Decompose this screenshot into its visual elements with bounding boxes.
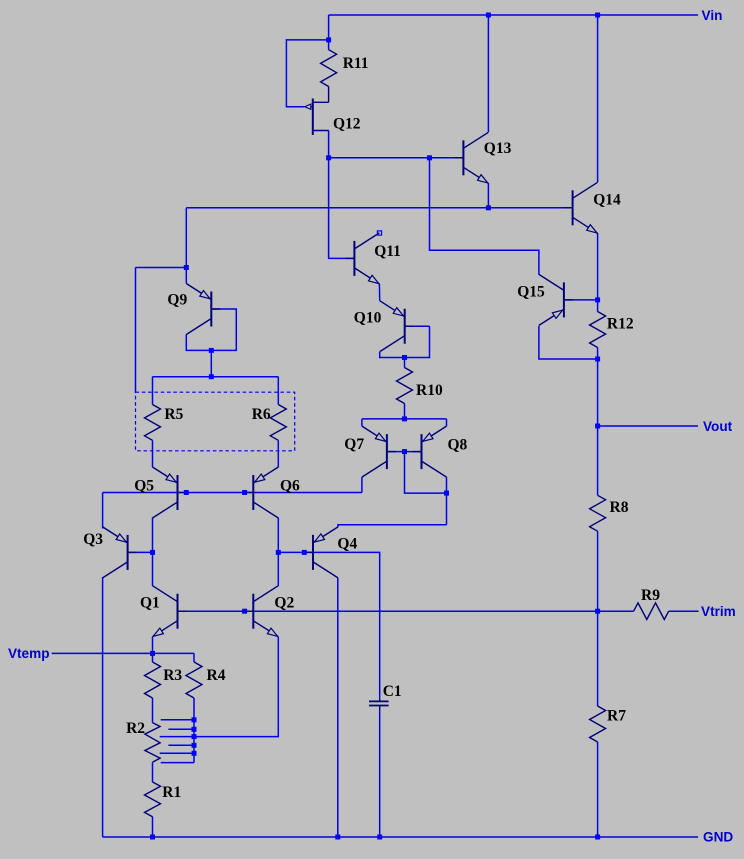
junction — [192, 743, 197, 748]
wire — [152, 762, 154, 782]
svg-text:Vtemp: Vtemp — [8, 646, 50, 661]
junction — [377, 835, 382, 840]
wire base bus Q5 Q6 — [103, 492, 362, 494]
junction — [595, 609, 600, 614]
wire Vin rail — [329, 14, 698, 16]
transistor Q9 — [210, 292, 212, 327]
junction — [192, 751, 197, 756]
resistor R7 — [590, 706, 606, 742]
wire — [102, 493, 104, 529]
svg-text:R2: R2 — [126, 720, 145, 737]
transistor Q12 JFET — [312, 99, 314, 135]
wire — [135, 268, 137, 393]
wire — [193, 653, 195, 662]
svg-text:R5: R5 — [164, 406, 183, 423]
wire — [277, 377, 279, 405]
junction — [192, 727, 197, 732]
wire — [286, 40, 328, 107]
svg-text:R4: R4 — [207, 667, 226, 684]
transistor Q13 — [462, 140, 464, 175]
svg-text:Vout: Vout — [703, 419, 733, 434]
svg-text:Q3: Q3 — [83, 531, 103, 548]
wire — [361, 477, 363, 492]
svg-text:Q2: Q2 — [274, 595, 294, 612]
wire Vout lead — [598, 425, 698, 427]
wire — [597, 359, 599, 495]
svg-text:Vtrim: Vtrim — [701, 604, 736, 619]
svg-text:Vin: Vin — [702, 8, 723, 23]
svg-text:R6: R6 — [252, 406, 271, 423]
wire — [430, 158, 539, 275]
wire — [487, 15, 489, 132]
wire tap — [161, 719, 194, 721]
wire — [277, 518, 279, 586]
junction — [427, 155, 432, 160]
wire — [152, 440, 154, 467]
junction — [595, 424, 600, 429]
resistor R1 — [145, 782, 161, 817]
wire — [404, 358, 406, 368]
wire — [337, 578, 339, 837]
wire — [379, 712, 381, 837]
junction — [276, 550, 281, 555]
junction — [242, 490, 247, 495]
junction — [486, 13, 491, 18]
svg-text:Q11: Q11 — [374, 243, 401, 260]
wire — [446, 419, 448, 426]
wire — [329, 157, 464, 159]
wire — [152, 518, 154, 586]
resistor R5 — [145, 405, 161, 441]
svg-text:C1: C1 — [383, 683, 402, 700]
wire — [378, 284, 380, 301]
wire Q10 diode loop — [380, 326, 430, 357]
wire — [597, 233, 599, 300]
svg-text:R12: R12 — [607, 316, 634, 333]
transistor Q11 — [353, 241, 355, 276]
wire Q7 base lead — [387, 451, 405, 453]
junction — [402, 355, 407, 360]
wire tap — [160, 736, 194, 738]
wire — [597, 742, 599, 837]
wire — [152, 653, 154, 662]
junction — [209, 348, 214, 353]
wire — [278, 552, 379, 698]
wire — [153, 376, 279, 378]
transistor Q10 — [404, 309, 406, 344]
transistor Q8 — [421, 434, 423, 469]
junction — [150, 835, 155, 840]
svg-text:Q1: Q1 — [140, 595, 160, 612]
svg-text:Q4: Q4 — [337, 536, 357, 553]
resistor R11 — [321, 50, 337, 87]
wire — [597, 15, 599, 182]
wire — [128, 551, 153, 553]
junction — [335, 835, 340, 840]
wire GND rail — [103, 836, 698, 838]
junction — [444, 491, 449, 496]
wire Vtrim bus — [178, 610, 634, 612]
wire — [328, 15, 330, 40]
junction — [150, 550, 155, 555]
resistor R9 — [634, 603, 669, 620]
wire tap — [168, 744, 194, 746]
wire Q7 Q8 base tie — [405, 452, 447, 494]
wire Vtemp lead — [52, 652, 194, 654]
wire Q9 diode loop — [186, 309, 236, 350]
wire — [194, 637, 278, 737]
junction — [184, 265, 189, 270]
wire tap — [160, 752, 194, 754]
wire — [539, 326, 598, 359]
resistor R3 — [145, 662, 161, 698]
wire Q7 Q8 emitter rail — [362, 418, 447, 420]
wire — [328, 40, 330, 50]
wire — [152, 817, 154, 837]
pin marker Q11 collector — [377, 231, 381, 235]
junction — [486, 205, 491, 210]
transistor Q6 — [252, 475, 254, 510]
junction — [595, 357, 600, 362]
transistor Q14 — [572, 190, 574, 225]
svg-text:Q14: Q14 — [593, 192, 621, 209]
transistor Q3 — [127, 535, 129, 570]
junction — [595, 835, 600, 840]
transistor Q2 — [252, 594, 254, 629]
wire — [277, 440, 279, 467]
wire — [328, 131, 330, 158]
matched pair box R5 R6 — [136, 392, 295, 451]
wire — [446, 477, 448, 525]
svg-text:R11: R11 — [343, 55, 369, 72]
wire — [405, 325, 430, 327]
junction — [192, 717, 197, 722]
svg-text:GND: GND — [703, 830, 733, 845]
wire — [152, 377, 154, 405]
resistor R6 — [270, 405, 286, 441]
svg-text:Q8: Q8 — [448, 437, 468, 454]
svg-text:R8: R8 — [610, 499, 629, 516]
wire — [597, 348, 599, 360]
svg-text:Q13: Q13 — [484, 140, 512, 157]
junction — [302, 550, 307, 555]
capacitor C1 — [379, 698, 381, 701]
svg-text:R1: R1 — [162, 784, 181, 801]
transistor Q15 — [563, 282, 565, 317]
wire — [102, 577, 104, 837]
svg-text:Q12: Q12 — [333, 116, 361, 133]
junction — [209, 374, 214, 379]
svg-text:Q9: Q9 — [167, 292, 187, 309]
wire — [597, 300, 599, 312]
resistor R2 — [145, 723, 160, 763]
wire — [404, 404, 406, 419]
junction — [192, 734, 197, 739]
wire — [487, 183, 489, 208]
resistor R10 — [397, 368, 413, 404]
junction — [326, 155, 331, 160]
junction — [150, 651, 155, 656]
junction — [402, 449, 407, 454]
wire — [152, 637, 154, 654]
svg-text:Q10: Q10 — [354, 310, 382, 327]
transistor Q4 — [312, 535, 314, 570]
junction — [595, 13, 600, 18]
junction — [184, 490, 189, 495]
svg-text:Q7: Q7 — [344, 436, 364, 453]
svg-text:R10: R10 — [416, 382, 443, 399]
wire — [210, 350, 212, 376]
svg-text:R9: R9 — [641, 587, 660, 604]
wire — [597, 531, 599, 611]
wire — [328, 87, 330, 103]
svg-text:Q5: Q5 — [134, 478, 154, 495]
resistor R12 — [590, 312, 606, 348]
junction — [242, 609, 247, 614]
junction — [326, 37, 331, 42]
svg-text:R3: R3 — [163, 667, 182, 684]
transistor Q5 — [177, 475, 179, 510]
wire — [338, 525, 447, 527]
svg-text:Q6: Q6 — [280, 478, 300, 495]
wire — [669, 610, 699, 612]
wire — [564, 299, 598, 301]
junction — [595, 297, 600, 302]
transistor Q7 — [386, 434, 388, 469]
junction — [402, 416, 407, 421]
wire tap — [168, 728, 194, 730]
wire — [361, 419, 363, 426]
wire R2 tap column — [193, 698, 195, 763]
wire — [597, 611, 599, 706]
resistor R4 — [186, 662, 202, 698]
transistor Q1 — [177, 594, 179, 629]
svg-text:Q15: Q15 — [517, 284, 545, 301]
wire — [152, 698, 154, 723]
wire tap — [161, 762, 194, 764]
wire Q8 base lead — [405, 451, 422, 453]
wire — [329, 158, 355, 259]
resistor R8 — [590, 495, 606, 531]
wire — [185, 268, 187, 284]
wire — [136, 267, 187, 269]
svg-text:R7: R7 — [607, 708, 626, 725]
wire — [185, 208, 187, 268]
wire — [186, 207, 572, 209]
